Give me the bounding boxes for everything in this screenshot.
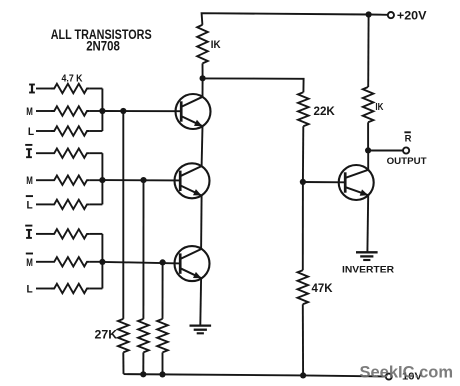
svg-text:IK: IK [211, 39, 221, 51]
svg-text:M: M [26, 175, 33, 187]
svg-text:47K: 47K [312, 281, 333, 295]
svg-text:OUTPUT: OUTPUT [387, 156, 427, 167]
svg-text:INVERTER: INVERTER [342, 264, 394, 275]
svg-text:+20V: +20V [397, 10, 427, 22]
svg-text:R: R [405, 133, 412, 144]
svg-text:L: L [27, 199, 33, 211]
svg-text:4.7 K: 4.7 K [62, 73, 84, 84]
svg-text:L: L [28, 126, 34, 138]
svg-text:IK: IK [375, 101, 383, 113]
svg-text:SeekIC.com: SeekIC.com [360, 364, 454, 382]
svg-text:27K: 27K [95, 327, 118, 341]
svg-text:2N708: 2N708 [86, 39, 120, 54]
svg-text:L: L [27, 284, 33, 296]
svg-text:M: M [26, 257, 33, 269]
svg-text:M: M [26, 106, 33, 118]
svg-text:22K: 22K [314, 104, 336, 118]
